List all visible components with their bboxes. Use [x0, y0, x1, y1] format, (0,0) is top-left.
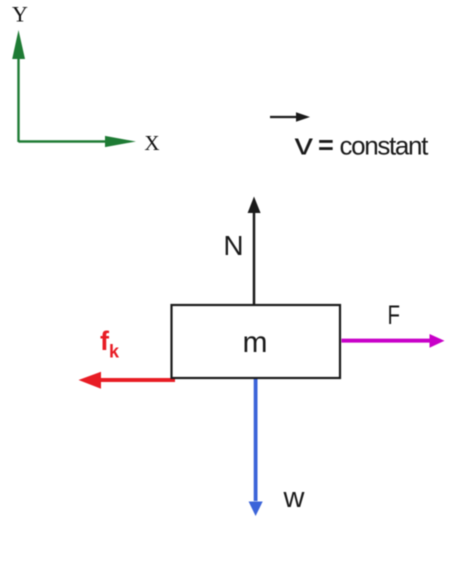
svg-text:X: X: [144, 131, 159, 155]
svg-text:Y: Y: [12, 2, 28, 27]
Y axis arrow (green): [12, 30, 25, 142]
svg-text:m: m: [243, 326, 268, 359]
weight arrow w (blue, down): [249, 378, 263, 516]
X axis arrow (green): [19, 136, 137, 147]
friction force arrow f_k (red, left): [79, 372, 176, 389]
normal force arrow N (black, up): [248, 197, 261, 306]
svg-text:w: w: [283, 482, 306, 514]
label v = constant: [295, 127, 430, 162]
svg-text:v: v: [295, 127, 314, 162]
mass box: [172, 305, 341, 378]
svg-text:=: =: [318, 130, 334, 160]
svg-text:F: F: [388, 300, 401, 330]
velocity arrow (black): [270, 112, 310, 121]
svg-text:constant: constant: [340, 131, 430, 161]
svg-text:N: N: [223, 230, 243, 261]
applied force arrow F (magenta, right): [342, 334, 445, 348]
